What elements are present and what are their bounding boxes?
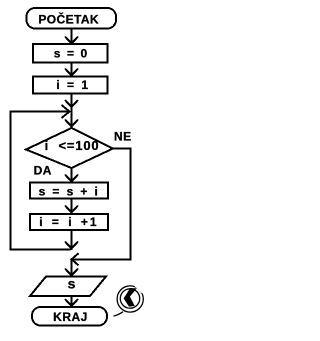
- arrowhead NE into center: [72, 253, 79, 265]
- svg-text:DA: DA: [34, 164, 52, 178]
- arrowhead into diamond: [65, 120, 78, 127]
- process box i=1: [33, 77, 108, 94]
- process box i=i+1: [30, 214, 108, 230]
- svg-text:i = i +1: i = i +1: [39, 215, 98, 229]
- decision diamond: [26, 128, 113, 168]
- arrowhead loop into main line: [62, 105, 70, 118]
- terminator POČETAK: [27, 8, 117, 29]
- NE branch wire: [72, 149, 131, 260]
- wire diamond to s=s+i: [71, 168, 73, 181]
- svg-text:i: i: [45, 138, 49, 153]
- wire s=s+i to i=i+1: [71, 200, 73, 212]
- arrowhead onto loop line: [65, 242, 78, 249]
- svg-text:s = s + i: s = s + i: [39, 185, 100, 199]
- svg-text:<=100: <=100: [59, 138, 100, 153]
- svg-text:KRAJ: KRAJ: [53, 310, 88, 324]
- arrowhead into s=s+i: [65, 175, 78, 182]
- wire s=0 to i=1: [71, 63, 73, 75]
- wire junction to output: [71, 259, 73, 275]
- process box s=0: [33, 44, 108, 62]
- logo circle: [120, 289, 139, 308]
- arrowhead into output: [65, 269, 78, 276]
- output parallelogram s: [30, 277, 106, 297]
- arrowhead into KRAJ: [65, 299, 78, 306]
- arrowhead into i=i+1: [65, 206, 78, 213]
- wire output to KRAJ: [71, 297, 73, 306]
- logo outer swirl: [117, 286, 143, 312]
- svg-text:s: s: [68, 275, 76, 291]
- svg-text:s = 0: s = 0: [54, 47, 89, 61]
- svg-text:NE: NE: [114, 129, 132, 143]
- arrowhead mid junction: [65, 100, 78, 107]
- wire i=i+1 down to loop line: [71, 231, 73, 250]
- svg-text:POČETAK: POČETAK: [38, 11, 99, 26]
- wire i=1 to diamond: [71, 95, 73, 129]
- loop-back wire: [11, 112, 71, 250]
- arrowhead into s=0: [65, 37, 78, 44]
- logo bolt: [124, 288, 137, 307]
- terminator KRAJ: [32, 307, 107, 326]
- wire start to s=0: [71, 29, 73, 43]
- process box s=s+i: [30, 183, 108, 199]
- svg-text:i = 1: i = 1: [56, 78, 90, 92]
- arrowhead into i=1: [65, 69, 78, 76]
